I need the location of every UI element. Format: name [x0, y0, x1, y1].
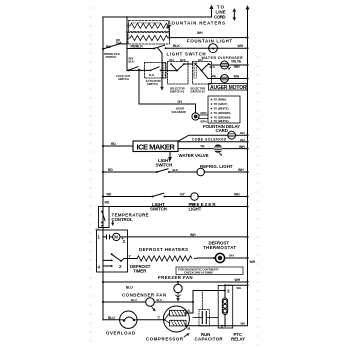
switch fountain light	[153, 48, 155, 50]
svg-text:WH: WH	[234, 65, 240, 69]
node right bus y141.8	[246, 141, 248, 143]
svg-text:WH: WH	[235, 278, 241, 282]
wire right bus	[247, 8, 249, 326]
wire condenser fan row	[103, 301, 193, 303]
label WH	[237, 286, 242, 290]
wire heater right vertical	[168, 26, 170, 38]
heater dashed box 2	[128, 33, 170, 45]
terminal C	[164, 319, 166, 321]
actuator switch dashed box	[145, 63, 167, 79]
wire PTC top to right bus	[225, 285, 248, 290]
wire water dispenser valve row	[209, 64, 248, 65]
arrow valve pointer	[229, 67, 231, 69]
label FREEZER FAN	[158, 275, 193, 280]
wire lamp to bus	[209, 47, 248, 49]
label WATER VALVE	[179, 153, 209, 158]
svg-text:PK: PK	[212, 75, 217, 79]
thermostat defrost	[215, 253, 224, 262]
compressor circle	[163, 306, 189, 332]
label GY	[180, 193, 186, 197]
label terminal 3	[122, 238, 124, 240]
svg-text:BRN: BRN	[201, 119, 207, 123]
run capacitor lead right	[207, 317, 219, 319]
decorative margin dots left	[90, 7, 259, 346]
label CUBE SOLENOID	[192, 138, 227, 142]
switch interlock lever	[103, 44, 120, 49]
wire lockout feed vertical	[126, 49, 128, 71]
heater dashed box 1	[129, 21, 170, 32]
label WH	[229, 254, 234, 258]
node right bus y196.5	[246, 195, 248, 197]
arrow condenser fan pointer	[152, 307, 155, 311]
label DEFROST HEATERS	[139, 247, 188, 252]
node right bus y65	[246, 64, 248, 66]
wire overload to compressor	[137, 319, 164, 321]
node right bus y135	[246, 134, 248, 136]
node left bus refrig light	[102, 171, 104, 173]
wire refrig light row	[103, 171, 157, 173]
overload protector	[120, 311, 137, 328]
svg-text:SOLENOID: SOLENOID	[172, 110, 186, 114]
switch lock out	[128, 69, 130, 71]
label BLU	[108, 316, 115, 320]
svg-text:M: M	[114, 235, 118, 240]
wire GY row to door solenoid	[139, 104, 196, 112]
svg-text:ICE MAKER: ICE MAKER	[137, 142, 176, 151]
svg-text:REFRIG. LIGHT: REFRIG. LIGHT	[200, 164, 233, 169]
label LIGHT SWITCH refrig	[156, 158, 173, 168]
label terminal 2	[119, 264, 122, 269]
svg-text:THERMOSTAT: THERMOSTAT	[203, 245, 236, 250]
svg-text:TN: TN	[200, 145, 205, 149]
linkage dashed pair S2	[194, 63, 196, 80]
node left bus ice maker	[102, 145, 104, 147]
arrow ice maker down	[169, 152, 171, 159]
svg-text:FOUNTAIN LIGHT: FOUNTAIN LIGHT	[187, 39, 232, 44]
svg-text:WH: WH	[238, 44, 244, 48]
label LIGHT SWITCH freezer	[150, 202, 167, 212]
terminal S	[185, 312, 187, 314]
wire freezer light row	[103, 196, 153, 198]
svg-text:TO (PINK): TO (PINK)	[214, 98, 227, 102]
label SELECTOR SWITCH 2	[190, 86, 205, 93]
switch freezer light	[152, 196, 154, 198]
label WATER DISPENSER VALVE	[202, 56, 244, 63]
tiny label row above boxes	[169, 58, 203, 62]
label LOCK OUT SWITCH	[116, 74, 131, 81]
arrow drop end	[160, 87, 164, 91]
wire lamp to bus	[204, 171, 247, 173]
label C	[158, 316, 161, 320]
selector switch 2 dashed box	[193, 62, 212, 85]
label INTERLOCK SWITCH	[104, 52, 120, 59]
wire water valve row	[178, 148, 248, 150]
svg-text:WH: WH	[241, 322, 246, 326]
label RD	[105, 201, 110, 205]
svg-text:WH: WH	[239, 145, 245, 149]
coil auger motor	[221, 75, 229, 83]
arrow to heaters box	[167, 25, 171, 28]
switch defrost timer	[111, 253, 113, 255]
label GY	[178, 100, 184, 104]
svg-text:WH: WH	[169, 58, 174, 62]
svg-text:CARD: CARD	[216, 128, 228, 133]
wire lockout down to GY row	[138, 70, 140, 104]
label WH	[240, 138, 245, 142]
label BLU	[126, 285, 133, 289]
label LIGHT SWITCH	[167, 51, 206, 56]
svg-text:WH: WH	[237, 286, 242, 290]
svg-text:BLU: BLU	[157, 298, 163, 302]
label WH	[197, 31, 203, 35]
label FOUNTAIN HEATERS	[168, 21, 225, 26]
PTC relay box	[218, 285, 233, 328]
svg-text:SWITCH #1: SWITCH #1	[170, 89, 185, 93]
lamp fountain light	[209, 44, 218, 53]
wire heater left vertical	[126, 17, 128, 49]
label BLU	[157, 298, 163, 302]
arrow temp control pointer	[112, 222, 114, 225]
label TN	[200, 145, 205, 149]
wire fountain light row	[166, 47, 210, 49]
svg-text:SWITCH: SWITCH	[147, 82, 158, 86]
svg-text:RD: RD	[106, 45, 111, 49]
compressor run winding	[170, 320, 187, 326]
label WH	[241, 322, 246, 326]
svg-text:BLU: BLU	[126, 285, 133, 289]
node S line condenser join	[192, 301, 194, 303]
run capacitor dashed box	[199, 310, 210, 327]
label 2	[221, 324, 224, 329]
wire heater to thermostat	[195, 257, 216, 260]
label BLK	[173, 44, 180, 48]
node right bus y78.5	[246, 77, 248, 79]
label TO LINE CORD	[214, 5, 226, 20]
svg-text:BLK: BLK	[129, 60, 135, 64]
label WH	[239, 145, 245, 149]
wire light switch drop diagonal	[158, 48, 162, 87]
run capacitor plates	[202, 312, 206, 324]
label BRN	[201, 111, 207, 124]
svg-text:TIMER: TIMER	[133, 269, 147, 274]
svg-text:BLU: BLU	[131, 298, 137, 302]
wire freezer fan row	[103, 281, 248, 283]
svg-text:WH: WH	[250, 260, 256, 264]
selector switch 1 dashed box	[168, 62, 189, 85]
coil cube solenoid	[228, 131, 236, 139]
svg-text:N.O.: N.O.	[149, 73, 155, 77]
svg-text:SWITCH: SWITCH	[106, 55, 117, 59]
svg-text:SWITCH: SWITCH	[118, 77, 129, 81]
svg-text:BLK: BLK	[173, 44, 180, 48]
wire timer to right bus	[120, 236, 248, 238]
wire heaters to right bus	[169, 37, 247, 39]
temperature control box	[99, 207, 110, 228]
svg-text:DEFROST HEATERS: DEFROST HEATERS	[139, 247, 188, 252]
svg-text:TO (WHITE): TO (WHITE)	[214, 107, 229, 111]
svg-text:SWITCH #2: SWITCH #2	[190, 89, 205, 93]
svg-text:WH: WH	[190, 233, 196, 237]
wire left bus to overload	[103, 319, 120, 321]
svg-text:WH: WH	[240, 131, 245, 135]
node right bus y48	[246, 47, 248, 49]
motor freezer fan	[174, 284, 182, 292]
label WH	[240, 131, 245, 135]
node left bus freezer fan	[102, 281, 104, 283]
svg-text:240V 625W 240V 625W 240V: 240V 625W 240V 625W 240V	[131, 22, 161, 24]
compressor start winding	[170, 310, 187, 316]
node freezer fan tap	[177, 281, 179, 283]
svg-text:WH: WH	[240, 138, 245, 142]
label TEMPERATURE CONTROL	[112, 212, 149, 222]
label FOUNTAIN DELAY CARD	[203, 124, 240, 133]
resistor fountain heater 2	[127, 35, 170, 40]
terminal R	[185, 325, 187, 327]
label N.O.	[149, 73, 155, 77]
fountain delay card box	[208, 96, 240, 123]
svg-text:RD: RD	[108, 168, 113, 172]
label S	[188, 309, 191, 313]
svg-text:WH: WH	[238, 168, 244, 172]
label Y	[129, 255, 132, 259]
svg-text:COMPRESSOR: COMPRESSOR	[146, 336, 184, 341]
arrow double vertical	[233, 10, 235, 19]
arrow water valve pointer	[220, 153, 222, 155]
svg-text:TO (WHITE): TO (WHITE)	[214, 119, 229, 123]
arrow compressor pointer	[184, 334, 188, 337]
wire left bus	[102, 17, 104, 320]
node left bus condenser fan	[102, 301, 104, 303]
label WH right of bus	[250, 260, 256, 264]
switch temperature control	[101, 211, 103, 213]
label CONDENSER FAN	[122, 292, 166, 297]
svg-text:LIGHT SWITCH: LIGHT SWITCH	[167, 51, 206, 56]
wire bottom R row	[186, 325, 248, 327]
label WH	[238, 44, 244, 48]
svg-text:BLK: BLK	[173, 168, 179, 172]
svg-text:CUBE SOLENOID: CUBE SOLENOID	[192, 138, 227, 142]
svg-text:WH: WH	[234, 193, 240, 197]
label R	[188, 327, 191, 331]
lamp freezer light	[191, 193, 199, 201]
label WH	[235, 278, 241, 282]
svg-text:TO (GRAY): TO (GRAY)	[214, 102, 228, 106]
PTC element	[222, 298, 227, 315]
svg-text:CONTROL: CONTROL	[112, 217, 133, 222]
node PTC bottom	[224, 325, 226, 327]
svg-text:WH: WH	[197, 31, 203, 35]
label PTC RELAY	[231, 332, 245, 342]
label GY	[96, 228, 100, 232]
tiny rating text in heater box	[131, 22, 161, 24]
label PK	[212, 75, 217, 79]
svg-text:CONDENSER FAN: CONDENSER FAN	[122, 292, 166, 297]
defrost timer box	[97, 230, 128, 272]
node left bus freezer light	[102, 195, 104, 197]
label FOUNTAIN LIGHT	[187, 39, 232, 44]
svg-text:RD: RD	[107, 193, 112, 197]
svg-text:AUGER MOTOR: AUGER MOTOR	[210, 85, 247, 91]
wire lockout row	[127, 69, 139, 71]
wire WH row from temp control	[109, 206, 248, 208]
svg-text:WATER VALVE: WATER VALVE	[179, 153, 209, 158]
label COMPRESSOR	[146, 336, 184, 341]
label RD BLK stacked	[116, 38, 122, 45]
node right bus y148.6	[246, 148, 248, 150]
label RD	[108, 168, 113, 172]
label DEFROST THERMOSTAT	[203, 241, 236, 251]
wire thermostat to bus	[225, 257, 247, 259]
label WH	[234, 65, 240, 69]
wire lamp to bus	[198, 196, 248, 198]
label RD BLK stacked lockout	[129, 57, 135, 64]
svg-text:CAPACITOR: CAPACITOR	[195, 336, 224, 341]
linkage dashed pair S1	[163, 63, 165, 80]
switch refrig light	[156, 171, 158, 173]
svg-text:CORD: CORD	[214, 15, 226, 20]
svg-text:BRN: BRN	[201, 111, 207, 115]
wire left bus to ice maker	[103, 145, 133, 147]
label FREEZER LIGHT	[189, 202, 217, 212]
label BLK	[210, 65, 216, 69]
wire timer out Y	[121, 259, 137, 262]
node right bus y37.5	[246, 36, 248, 38]
wire interlock to heater box	[120, 43, 128, 45]
diagnostic note box	[176, 267, 243, 275]
label WH	[238, 168, 244, 172]
coil water dispenser valve	[221, 61, 229, 69]
arrow right bus top	[246, 5, 250, 10]
wire auger motor row	[208, 78, 248, 80]
label AUGER MOTOR boxed	[209, 84, 248, 91]
node interlock on left bus	[102, 48, 104, 50]
node right bus y283	[246, 281, 248, 283]
run capacitor lead left	[193, 317, 202, 319]
label DEFROST TIMER	[130, 264, 151, 274]
svg-text:VALVE: VALVE	[231, 59, 242, 63]
ice maker box	[133, 141, 178, 152]
svg-text:SWITCH: SWITCH	[150, 207, 167, 212]
label OVERLOAD	[106, 331, 135, 336]
arrow line-cord left	[210, 5, 214, 10]
selector switch 2 contacts	[195, 63, 197, 65]
svg-text:WH: WH	[234, 75, 240, 79]
label RUN CAPACITOR	[195, 332, 224, 342]
label WH	[190, 233, 196, 237]
label WH	[234, 75, 240, 79]
wire cube solenoid row	[178, 135, 248, 141]
node right bus y206.5	[246, 205, 248, 207]
label BLU	[131, 298, 137, 302]
label terminal 4	[98, 265, 101, 270]
fan symbol freezer	[176, 293, 181, 299]
wire top line	[103, 8, 212, 17]
svg-text:BLK: BLK	[210, 65, 216, 69]
water valve solenoid filled	[214, 144, 222, 152]
lamp refrig light	[197, 168, 205, 176]
node right bus y172	[246, 171, 248, 173]
wire ice maker to bus WH	[178, 141, 248, 143]
switch actuator	[139, 67, 168, 71]
resistor fountain heater 1	[127, 23, 170, 28]
label ACTUATOR SWITCH	[146, 79, 161, 86]
timer motor symbol	[103, 235, 113, 239]
node right bus y257.5	[246, 257, 248, 259]
motor condenser fan	[146, 298, 155, 307]
svg-text:RD: RD	[111, 142, 116, 146]
svg-text:SWITCH: SWITCH	[156, 163, 173, 168]
label RD/BLK	[131, 45, 144, 49]
label SELECTOR SWITCH 1	[170, 86, 185, 93]
card terminal rows	[211, 99, 213, 122]
wire door solenoid to card BRN	[199, 115, 208, 119]
label terminal 1	[98, 235, 101, 240]
label RD	[107, 193, 112, 197]
coil door solenoid	[192, 113, 199, 120]
label BLK	[173, 168, 179, 172]
svg-text:LIGHT: LIGHT	[189, 207, 202, 212]
label RD	[111, 142, 116, 146]
svg-text:WH: WH	[229, 254, 234, 258]
wire fountain light row left	[127, 48, 154, 50]
svg-text:BLU: BLU	[108, 316, 115, 320]
node right bus y236.9	[246, 236, 248, 238]
svg-text:BLK: BLK	[180, 58, 186, 62]
run capacitor dashed lead up	[201, 292, 203, 310]
label WH	[234, 193, 240, 197]
label DOOR SOLENOID	[172, 106, 186, 114]
node top-left corner	[102, 16, 104, 18]
svg-text:BLK: BLK	[116, 41, 122, 45]
wire S to PTC top	[186, 291, 225, 314]
svg-text:OVERLOAD: OVERLOAD	[106, 331, 135, 336]
selector switch 1 contacts	[170, 63, 172, 65]
svg-text:RELAY: RELAY	[231, 336, 245, 341]
label RD	[106, 45, 111, 49]
svg-text:WH: WH	[190, 203, 196, 207]
label WH	[190, 203, 196, 207]
svg-text:RD: RD	[105, 201, 110, 205]
svg-text:FREEZER FAN: FREEZER FAN	[158, 275, 193, 280]
svg-text:FOUNTAIN HEATERS: FOUNTAIN HEATERS	[168, 21, 225, 26]
resistor defrost heaters	[137, 256, 192, 261]
label 3	[227, 289, 230, 294]
label REFRIG. LIGHT	[200, 164, 233, 169]
svg-text:RD/BLK: RD/BLK	[131, 45, 144, 49]
